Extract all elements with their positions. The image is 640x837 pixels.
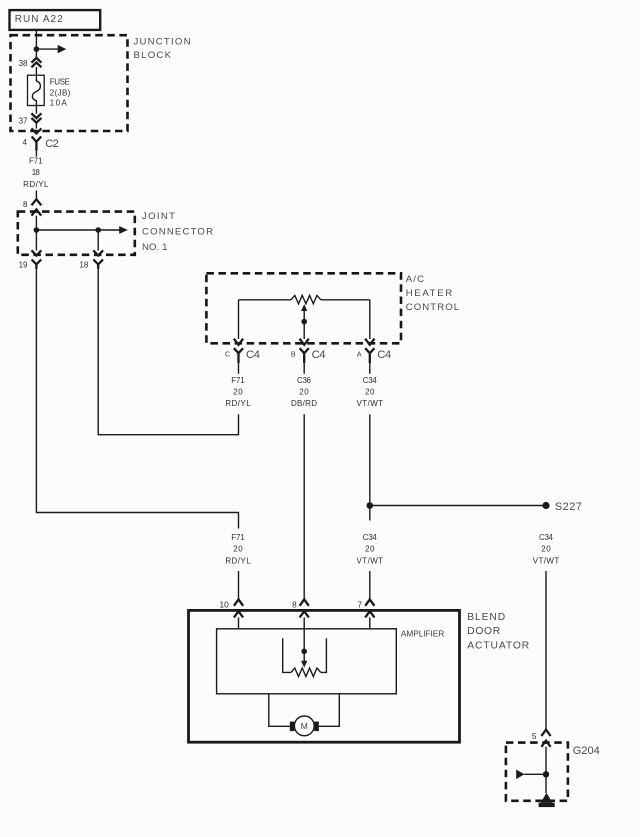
wire amplifier to motor right — [319, 694, 340, 727]
svg-text:VT/WT: VT/WT — [357, 556, 384, 565]
label JUNCTION BLOCK — [134, 36, 191, 61]
svg-text:CONNECTOR: CONNECTOR — [142, 227, 213, 238]
pin A of C4 — [357, 339, 391, 363]
wire label F71 20 RD/YL (to pin 10) — [225, 533, 251, 565]
ground symbol — [539, 793, 555, 807]
wire splice to pin 7 — [369, 571, 371, 599]
svg-text:7: 7 — [357, 600, 362, 610]
svg-text:BLEND: BLEND — [467, 612, 505, 623]
svg-text:20: 20 — [233, 388, 243, 397]
pin 37 chevrons — [19, 113, 42, 125]
svg-text:C4: C4 — [312, 349, 326, 361]
arrow to other circuits (joint connector) — [36, 226, 127, 234]
wire label C36 20 DB/RD (pin B) — [291, 376, 317, 408]
svg-text:20: 20 — [365, 388, 375, 397]
pin 18 exit symbol — [79, 250, 103, 269]
wire label F71 18 RD/YL — [23, 157, 49, 190]
A/C heater control dashed box — [206, 273, 401, 343]
svg-text:C4: C4 — [377, 349, 391, 361]
wire to pin 10 — [238, 571, 240, 599]
svg-text:NO. 1: NO. 1 — [142, 242, 168, 253]
svg-text:4: 4 — [22, 138, 27, 147]
label A/C HEATER CONTROL — [406, 274, 460, 313]
svg-text:A/C: A/C — [406, 274, 424, 285]
wire pin 19 long run down — [36, 269, 238, 529]
svg-text:F71: F71 — [231, 533, 245, 542]
wire pin37 to edge — [35, 123, 37, 129]
svg-text:RD/YL: RD/YL — [225, 556, 251, 565]
wire from RUN A22 into junction block — [35, 31, 37, 58]
svg-text:10: 10 — [219, 600, 229, 610]
svg-text:38: 38 — [19, 59, 28, 68]
wire stub below pin C — [238, 363, 240, 374]
pot wiper arrow — [301, 304, 307, 339]
svg-text:DB/RD: DB/RD — [291, 399, 317, 408]
pin 38 chevrons — [19, 58, 42, 68]
amplifier pot right leg — [321, 638, 327, 672]
pot leg left (to pin C) — [238, 300, 240, 339]
pin 7 entry symbol — [357, 599, 374, 617]
wire to pin 8 — [35, 191, 37, 200]
svg-text:VT/WT: VT/WT — [357, 399, 384, 408]
node G204 — [543, 771, 549, 777]
svg-text:C34: C34 — [363, 533, 378, 542]
amplifier pot left leg — [283, 638, 291, 672]
pin 8 entry symbol — [23, 199, 41, 215]
svg-text:AMPLIFIER: AMPLIFIER — [401, 629, 444, 639]
svg-text:RD/YL: RD/YL — [23, 180, 49, 189]
svg-text:B: B — [291, 351, 296, 358]
svg-text:C34: C34 — [363, 376, 378, 385]
arrow from other circuits (G204) — [516, 770, 546, 780]
wire inside G204 — [545, 747, 547, 793]
wire pin 7 into amplifier — [369, 617, 371, 628]
pin C of C4 — [225, 339, 260, 363]
svg-text:C2: C2 — [45, 138, 59, 150]
amplifier wiper node — [301, 649, 307, 655]
label JOINT CONNECTOR NO. 1 — [142, 211, 213, 253]
svg-text:JUNCTION: JUNCTION — [134, 36, 191, 47]
node joint connector left — [34, 227, 40, 233]
svg-text:8: 8 — [23, 200, 28, 209]
wire stub below pin B — [303, 363, 305, 374]
svg-text:5: 5 — [532, 731, 537, 741]
connector box RUN A22 — [10, 10, 101, 30]
svg-text:18: 18 — [32, 168, 41, 177]
wire pin A down to splice — [369, 414, 371, 520]
svg-text:C34: C34 — [539, 533, 554, 542]
svg-text:19: 19 — [19, 261, 28, 270]
pot leg right (to pin A) — [369, 300, 371, 339]
svg-text:DOOR: DOOR — [467, 626, 500, 637]
svg-text:20: 20 — [233, 545, 243, 554]
motor M — [290, 716, 319, 736]
pin B of C4 — [291, 339, 326, 363]
wire label C34 20 VT/WT (to pin 7) — [357, 533, 384, 565]
svg-text:F71: F71 — [231, 376, 245, 385]
svg-text:S227: S227 — [555, 501, 582, 513]
fuse FUSE 2(JB) 10A — [28, 75, 71, 107]
potentiometer resistor (A/C control) — [239, 299, 370, 301]
wire pin38 to fuse — [35, 67, 37, 75]
wire splice to G204 — [545, 571, 547, 730]
svg-text:20: 20 — [541, 545, 551, 554]
wire label C34 20 VT/WT (to G204) — [533, 533, 560, 565]
pin 19 exit symbol — [19, 250, 42, 269]
wire pin B down to actuator pin 8 — [303, 414, 305, 599]
svg-text:18: 18 — [79, 261, 88, 270]
svg-text:ACTUATOR: ACTUATOR — [467, 641, 529, 652]
svg-text:CONTROL: CONTROL — [406, 302, 460, 313]
pin 8 entry symbol — [292, 599, 309, 617]
amplifier wiper arrow — [301, 661, 307, 668]
svg-text:M: M — [301, 721, 308, 731]
wire pin 10 into amplifier — [238, 617, 240, 628]
svg-text:F71: F71 — [29, 157, 43, 166]
svg-text:VT/WT: VT/WT — [533, 556, 560, 565]
svg-text:A: A — [357, 351, 362, 358]
pin 10 entry symbol — [219, 599, 243, 617]
svg-text:37: 37 — [19, 116, 28, 125]
wire pin 18 to A/C control pin C — [98, 269, 238, 435]
node feed junction — [34, 46, 40, 52]
svg-text:RD/YL: RD/YL — [225, 399, 251, 408]
svg-text:2(JB): 2(JB) — [50, 88, 71, 97]
wire pin 8 to wiper — [303, 617, 305, 661]
splice S227 — [367, 501, 582, 513]
amplifier pot resistor — [291, 668, 321, 677]
wire stub below pin A — [369, 363, 371, 374]
arrow to other circuits (junction block) — [36, 45, 66, 53]
wire node to pin 18 — [97, 230, 99, 251]
label BLEND DOOR ACTUATOR — [467, 612, 529, 651]
wire fuse to pin 37 — [35, 106, 37, 114]
pin 5 entry symbol (G204) — [532, 730, 551, 747]
junction block dashed box — [11, 35, 128, 131]
ground G204 dashed box — [506, 743, 568, 801]
svg-text:10A: 10A — [50, 99, 68, 108]
connector C2 (edge chevron + Y + labels) — [22, 128, 58, 150]
svg-text:C4: C4 — [246, 349, 260, 361]
wire label C34 20 VT/WT (pin A) — [357, 376, 384, 408]
svg-text:C36: C36 — [297, 376, 312, 385]
amplifier box — [217, 629, 397, 694]
svg-text:G204: G204 — [573, 745, 600, 757]
wire label F71 20 RD/YL (pin C) — [225, 376, 251, 408]
svg-text:BLOCK: BLOCK — [134, 50, 172, 61]
node joint connector mid — [95, 227, 101, 233]
svg-text:FUSE: FUSE — [50, 78, 70, 87]
joint connector no.1 dashed box — [18, 212, 135, 255]
blend door actuator box — [189, 610, 460, 742]
svg-text:20: 20 — [365, 545, 375, 554]
svg-text:20: 20 — [299, 388, 309, 397]
node on wiper — [301, 319, 307, 325]
wire inside joint connector (left bus) — [35, 216, 37, 251]
wire stub below C2 — [35, 151, 37, 157]
svg-text:8: 8 — [292, 600, 297, 610]
wire amplifier to motor left — [269, 694, 290, 727]
svg-text:C: C — [225, 351, 230, 358]
